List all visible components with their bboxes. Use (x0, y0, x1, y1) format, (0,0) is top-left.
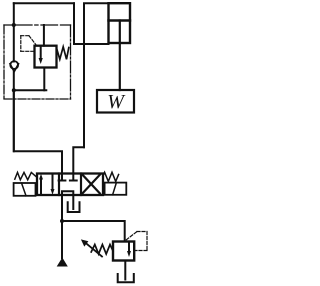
right actuator: solenoid box (105, 183, 127, 195)
left actuator: spring (15, 172, 37, 179)
cylinder (vertical, rod down) (109, 3, 131, 43)
wire: T port to tank (72, 195, 74, 209)
wire: rod-end line down and right to cylinder (74, 3, 109, 44)
left actuator: solenoid box (14, 183, 36, 196)
cylinder rod (119, 21, 121, 91)
tank under valve (68, 202, 80, 212)
node: junction dot at outlet bus (12, 88, 16, 92)
wire: P port down to pump node (61, 195, 63, 221)
node: junction dot at sequence tap (12, 23, 16, 27)
tank under relief valve (118, 274, 134, 282)
wire: sequence valve outlet stub (43, 68, 45, 91)
wire: outlet bus (14, 89, 47, 91)
sequence valve spring (57, 47, 69, 60)
enclosure (dash-dot boundary of one-way sequence valve unit) (4, 25, 71, 99)
wire: sequence valve inlet tap (43, 25, 45, 46)
relief valve internal arrow (127, 242, 131, 257)
sequence valve internal arrow (39, 47, 43, 65)
wire: supply branch to relief valve (62, 221, 125, 242)
wire: relief outlet to tank (124, 261, 126, 280)
relief valve adjustment arrow (81, 239, 102, 256)
pump source triangle (57, 258, 68, 267)
wire: top line from check line to rod-end corner (14, 2, 74, 4)
relief valve spring (91, 245, 113, 255)
wire: check valve line lower (13, 72, 15, 152)
wire: cap-end line from cylinder top (84, 3, 109, 147)
right position: crossed arrows (83, 175, 100, 194)
weight W box (97, 90, 134, 113)
svg-text:W: W (107, 91, 126, 113)
wire: pump riser (61, 221, 63, 258)
sequence valve pilot dashed line (21, 36, 37, 52)
sequence valve (pilot relief style box) (35, 46, 57, 68)
relief valve box (113, 242, 134, 261)
relief valve pilot dashed line (126, 232, 147, 251)
wire: jog into valve port B (73, 147, 84, 173)
cylinder piston (109, 19, 131, 21)
left position: parallel arrows (39, 174, 55, 195)
center position: blocked A,B and P-T connected (59, 174, 77, 196)
node: pump junction dot (60, 219, 64, 223)
wire: A-line down-left to valve port A (14, 90, 62, 173)
directional valve 3-position body (37, 174, 103, 196)
right actuator: spring (103, 172, 119, 181)
wire: check valve line upper (13, 3, 15, 61)
check valve V1 (ball and seat) (10, 61, 19, 72)
